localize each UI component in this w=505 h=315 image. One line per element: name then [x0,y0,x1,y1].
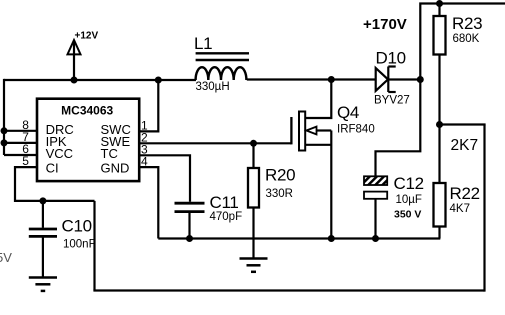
svg-text:R23: R23 [452,14,482,33]
capacitor C11 [175,203,205,211]
wire pin 8 stub [4,130,38,132]
wire pin 7 stub [4,142,38,144]
wire Q4 source drop [330,131,332,239]
node divider [436,121,443,128]
wire rail L1 to D10 [247,78,375,80]
wire bottom rail [93,289,484,291]
wire R23 bottom lead [438,55,440,125]
ground under C10 [29,278,57,291]
node D10 cathode [417,76,424,83]
wire bottom-left drop [93,201,95,291]
svg-text:5: 5 [22,154,29,168]
node +12V tap [71,77,78,84]
wire C11 bottom lead [188,213,190,239]
wire R22 bottom lead [438,227,440,239]
wire node to C12 [376,80,421,177]
wire mid ground rail [158,237,440,239]
wire pin 5 to C10 node [15,167,95,201]
wire C10 bottom lead [42,237,44,276]
svg-text:TC: TC [101,146,118,161]
svg-text:10µF: 10µF [396,194,422,206]
supply arrow +12V [68,40,81,54]
wire C12 bottom lead [374,199,376,239]
wire pin 2 to gate [138,142,291,144]
svg-text:R22: R22 [450,184,480,203]
wire R20 top lead [252,143,254,168]
wire left bus vertical [3,79,5,155]
wire pin 6 stub [4,154,38,156]
wire pin 4 down [138,167,158,238]
svg-text:IRF840: IRF840 [337,124,375,136]
node C12 bottom [372,235,379,242]
svg-text:D10: D10 [376,49,406,68]
svg-text:C12: C12 [394,174,424,193]
svg-text:CI: CI [46,161,59,176]
svg-text:GND: GND [101,161,130,176]
svg-text:350 V: 350 V [394,209,421,221]
wire pin 3 to C11 [138,155,190,202]
svg-text:680K: 680K [453,33,480,45]
resistor R22 [434,183,446,227]
wire pin 1 to rail [138,79,158,131]
node pin7 bus [1,139,8,146]
node R23 top [436,0,443,7]
ground under R20 [240,259,268,272]
svg-text:MC34063: MC34063 [61,104,113,118]
svg-text:C11: C11 [210,193,239,212]
node C11 bottom [186,235,193,242]
svg-text:4: 4 [141,155,148,169]
svg-text:4K7: 4K7 [450,203,470,215]
svg-text:VCC: VCC [46,146,73,161]
inductor L1 [196,53,249,80]
svg-text:100nF: 100nF [63,239,96,251]
wire Q4 bulk lead [305,144,331,146]
svg-text:470pF: 470pF [210,211,243,223]
node pin1 tap [155,77,162,84]
wire R22 top lead [438,125,440,184]
resistor R20 [248,168,259,208]
wire divider link [440,123,486,125]
op IC U1 MC34063 [37,99,139,181]
capacitor C10 [29,229,57,236]
resistor R23 [434,16,446,55]
wire D10 cathode to node [389,78,421,80]
svg-text:330R: 330R [266,188,294,200]
svg-text:R20: R20 [265,166,295,185]
node R20 gate [250,140,257,147]
wire +12V top rail [4,79,196,81]
svg-text:L1: L1 [194,34,212,53]
wire R20 to ground [252,208,254,259]
node Q4 source [328,235,335,242]
svg-text:+170V: +170V [363,16,407,33]
wire Q4 drain [305,80,331,119]
svg-text:330µH: 330µH [196,81,230,93]
svg-text:+12V: +12V [75,31,99,42]
svg-text:Q4: Q4 [337,103,359,122]
svg-text:C10: C10 [62,217,92,236]
node C10 tap [39,197,46,204]
node Q4 drain [328,76,335,83]
svg-text:5V: 5V [0,250,12,265]
wire R23 top lead [438,4,440,17]
wire right riser [483,125,485,292]
wire C10 top lead [42,201,44,228]
wire top right rail [420,4,505,81]
diode D10 [376,68,388,91]
transistor Q4 MOSFET [290,117,292,144]
wire +12V stem [73,42,75,81]
wire Q4 arrow lead [316,129,331,131]
svg-text:BYV27: BYV27 [374,95,410,107]
node pin8 bus [1,127,8,134]
svg-text:2K7: 2K7 [451,137,479,154]
